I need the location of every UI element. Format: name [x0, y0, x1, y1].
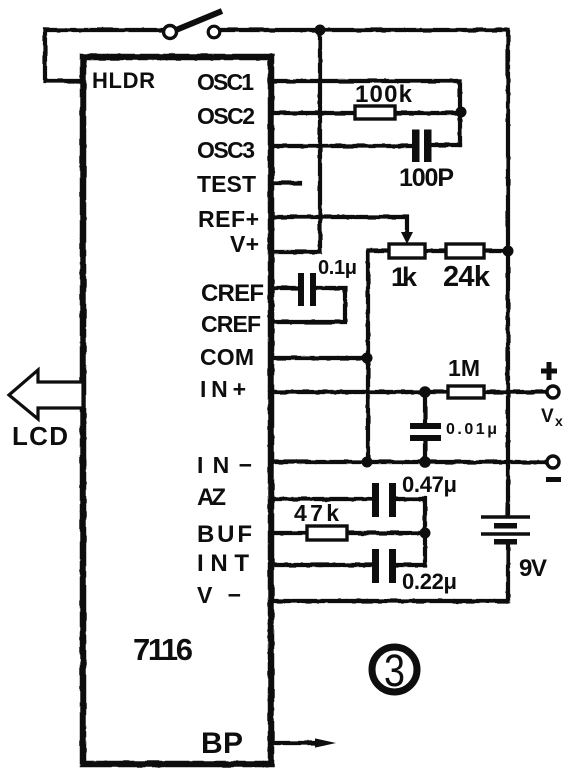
svg-text:BP: BP [201, 727, 243, 760]
svg-text:TEST: TEST [197, 171, 256, 197]
svg-text:CREF: CREF [201, 280, 264, 307]
svg-text:1k: 1k [391, 262, 418, 292]
svg-text:V+: V+ [230, 231, 259, 257]
svg-text:0.1μ: 0.1μ [318, 257, 357, 279]
svg-text:V: V [541, 406, 554, 427]
svg-text:0.47μ: 0.47μ [402, 472, 457, 497]
svg-text:BUF: BUF [197, 521, 252, 548]
svg-text:x: x [555, 413, 563, 429]
svg-text:3: 3 [384, 645, 405, 696]
svg-text:COM: COM [200, 344, 254, 370]
svg-text:7116: 7116 [133, 632, 193, 667]
svg-text:9V: 9V [519, 555, 547, 582]
svg-text:OSC1: OSC1 [197, 69, 254, 95]
svg-text:OSC3: OSC3 [197, 137, 255, 163]
svg-text:24k: 24k [443, 261, 491, 293]
svg-text:HLDR: HLDR [92, 68, 155, 93]
svg-text:AZ: AZ [197, 484, 226, 511]
svg-text:47k: 47k [294, 500, 339, 526]
svg-text:100k: 100k [355, 81, 413, 108]
svg-text:0.01μ: 0.01μ [446, 421, 497, 438]
svg-text:OSC2: OSC2 [197, 103, 255, 129]
svg-text:1M: 1M [448, 355, 480, 381]
svg-text:LCD: LCD [12, 421, 68, 451]
svg-text:REF+: REF+ [198, 206, 259, 232]
svg-text:0.22μ: 0.22μ [402, 569, 457, 594]
svg-text:CREF: CREF [201, 311, 261, 337]
svg-text:100P: 100P [399, 164, 454, 192]
